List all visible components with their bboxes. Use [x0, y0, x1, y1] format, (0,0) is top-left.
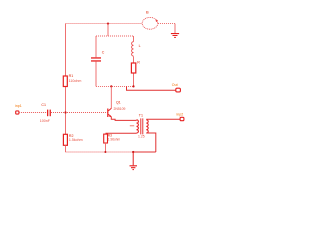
wire source to ground	[158, 23, 175, 25]
wire collector	[110, 86, 112, 108]
port inp2	[177, 113, 184, 121]
resistor R3	[104, 134, 121, 144]
wire tank top rail	[96, 35, 134, 37]
node collector junction	[110, 85, 112, 87]
node ground junction	[132, 151, 134, 153]
svg-text:T1: T1	[139, 113, 143, 117]
wire input rail	[19, 112, 107, 114]
svg-text:1.96ohm: 1.96ohm	[108, 137, 121, 141]
wire R2 to bottom rail	[65, 145, 67, 152]
svg-text:C: C	[102, 50, 105, 54]
resistor R2	[63, 134, 82, 145]
svg-text:Out: Out	[172, 83, 178, 87]
wire cap branch	[95, 36, 97, 86]
wire left vertical (R1 branch)	[65, 24, 67, 135]
wire TR to inp2	[146, 118, 180, 120]
port inp1	[15, 104, 22, 114]
svg-text:110ohm: 110ohm	[69, 79, 82, 83]
svg-text:1.5kohm: 1.5kohm	[69, 138, 83, 142]
transistor Q1	[107, 100, 125, 117]
wire tank branch down	[107, 24, 109, 36]
transformer T1	[130, 113, 148, 138]
port Out	[172, 83, 181, 92]
wire L branch	[133, 36, 135, 86]
voltage source B	[142, 10, 158, 30]
resistor R (tank)	[131, 61, 140, 74]
node tank right junction	[132, 85, 134, 87]
node R3 bottom junction	[105, 151, 107, 153]
svg-text:2N5109: 2N5109	[114, 107, 126, 111]
wire R3 to bottom rail	[105, 143, 107, 152]
wire tank bottom rail	[96, 85, 134, 87]
wire top rail	[66, 23, 143, 25]
svg-text:B: B	[146, 10, 149, 15]
resistor R1	[63, 74, 81, 87]
ground (bottom)	[130, 152, 138, 170]
capacitor C (tank)	[91, 50, 105, 61]
svg-text:Q1: Q1	[116, 100, 121, 104]
wire bottom rail	[66, 151, 134, 153]
wire emitter path	[111, 117, 136, 121]
wire BR loop	[146, 133, 156, 152]
svg-text:R: R	[137, 61, 140, 65]
ground (top right)	[171, 34, 179, 38]
svg-text:1.25: 1.25	[138, 135, 145, 139]
capacitor C1	[40, 103, 51, 123]
node base junction	[64, 111, 66, 113]
svg-text:100nF: 100nF	[40, 119, 51, 123]
wire out jog	[127, 86, 176, 90]
node top rail junction	[107, 23, 109, 25]
svg-text:L: L	[139, 44, 141, 48]
svg-text:inp2: inp2	[177, 113, 184, 117]
wire BL to R3	[106, 132, 137, 134]
svg-text:C1: C1	[41, 103, 46, 107]
svg-text:inp1: inp1	[15, 104, 22, 108]
inductor L	[132, 42, 141, 56]
svg-text:R1: R1	[69, 74, 74, 78]
